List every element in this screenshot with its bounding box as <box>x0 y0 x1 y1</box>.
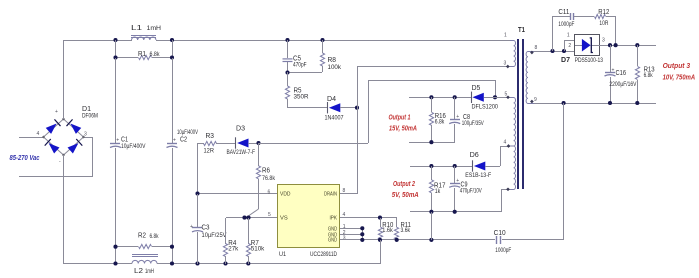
pin label: T1 pin 4 <box>504 140 507 146</box>
label: R1 value 6.8k <box>150 52 161 58</box>
label: C3 value 10uF/25V <box>202 233 227 239</box>
wire: U1 GND pins 1-3 stubs <box>340 228 363 240</box>
svg-text:9: 9 <box>534 97 537 103</box>
svg-text:Output 3: Output 3 <box>663 61 691 70</box>
transformer T1 secondary winding pins 8-9 <box>526 52 534 104</box>
svg-text:D7: D7 <box>561 57 570 64</box>
wire: aux supply line from VDD branch to R3 <box>198 143 204 145</box>
svg-text:L1: L1 <box>131 25 142 32</box>
diode D7 PDS5100-13 output rectifier in box <box>575 35 600 56</box>
capacitor C16 2200uF/16V output cap <box>605 45 616 103</box>
pin label: T1 pin 1 <box>504 32 507 38</box>
svg-text:76.8k: 76.8k <box>262 176 276 182</box>
label: R4 value 27k <box>228 247 239 253</box>
svg-text:DF06M: DF06M <box>82 114 98 120</box>
svg-text:L2: L2 <box>134 268 143 275</box>
label: Output 2 rating 5V 50mA <box>392 190 419 199</box>
pin label: bridge pin 4 <box>37 131 40 137</box>
svg-text:D4: D4 <box>327 96 336 103</box>
label: 85-270 Vac input <box>10 153 41 162</box>
svg-text:C2: C2 <box>180 137 187 144</box>
wire: VDD branch vertical and stub to U1 pin 6 <box>198 143 279 194</box>
junction: VDD node to C3 <box>195 191 199 195</box>
wire: secondary pin 8 to D7 anode <box>534 51 575 53</box>
label: C8 reference <box>463 114 470 121</box>
pin marker: T1 pin 5 <box>506 95 510 99</box>
label: C10 reference <box>494 230 506 237</box>
svg-text:DFLS1200: DFLS1200 <box>472 104 499 110</box>
svg-text:1N4007: 1N4007 <box>325 116 345 122</box>
wire: Output 2 return rail to aux winding bottom <box>410 189 510 212</box>
capacitor C10 1000pF Y-cap <box>497 236 501 244</box>
svg-text:2: 2 <box>568 43 571 49</box>
capacitor C2 10uF/400V bulk cap <box>167 58 178 264</box>
label: D6 reference <box>470 152 479 159</box>
diode D3 BAV21W-7-F <box>236 137 259 148</box>
label: R4 reference <box>228 240 236 247</box>
wire: Output 3 positive node rail <box>599 45 656 47</box>
capacitor C11 1000pF snubber <box>552 13 574 51</box>
svg-text:10µF/400V: 10µF/400V <box>121 144 146 150</box>
label: R1 reference <box>138 51 146 58</box>
svg-text:10R: 10R <box>599 21 609 27</box>
label: R11 value 3.6k <box>401 228 411 234</box>
junction dots on Output 2 return <box>429 210 456 214</box>
svg-text:+: + <box>190 224 193 230</box>
label: R12 value 10R <box>599 21 609 27</box>
svg-text:VDD: VDD <box>280 192 291 198</box>
label: U1 reference <box>279 251 286 258</box>
label: T1 reference <box>518 27 525 34</box>
resistor R8 100k snubber <box>288 40 325 73</box>
svg-text:3: 3 <box>504 60 507 66</box>
pin marker: T1 aux winding bottom pin <box>506 187 510 191</box>
pin label: U1 pin 2 GND <box>343 230 346 236</box>
junction: D4 to drain line <box>355 106 359 110</box>
pin label: D7 pin 1 <box>567 32 570 38</box>
pin label: bridge + pin <box>55 109 58 115</box>
wire: drain line from transformer pin 3 to U1 DRAIN <box>340 66 510 194</box>
svg-text:1mH: 1mH <box>147 26 162 32</box>
label: R10 value 1.6k <box>382 228 393 234</box>
label: L1 reference <box>131 25 142 32</box>
svg-text:+: + <box>612 68 615 74</box>
svg-text:U1: U1 <box>279 251 286 258</box>
diode D6 ES1B-13-F rectifier <box>473 146 511 172</box>
wire: secondary return rail pin 9 <box>534 103 656 105</box>
wire: B- bottom rail <box>64 263 380 265</box>
pin marker: T1 pin 3 <box>506 65 510 69</box>
pin label: U1 pin 6 <box>268 189 271 195</box>
label: R10 reference <box>382 222 393 229</box>
resistor R3 12R <box>204 141 237 145</box>
svg-text:100µF/35V: 100µF/35V <box>462 121 484 127</box>
resistor R6 76.8k VS upper divider <box>246 143 261 218</box>
label: R3 value 12R <box>204 149 215 155</box>
wire: B+ top rail from bridge to transformer pin 1 <box>64 40 510 42</box>
svg-text:1mH: 1mH <box>145 269 154 275</box>
label: R7 value 510k <box>251 247 266 253</box>
wire: AC line input lower (to bridge pin 3) <box>19 137 93 177</box>
svg-text:R1: R1 <box>138 51 146 58</box>
junction dots on Output 3 rail <box>608 43 639 47</box>
junction dots on B- rail <box>113 261 250 265</box>
junction dots on Output 1 rail <box>429 95 456 99</box>
pin label: T1 pin 3 <box>504 60 507 66</box>
pin marker: T1 pin 4 <box>507 144 511 148</box>
svg-text:R6: R6 <box>262 167 270 174</box>
resistor R7 510k VS divider <box>246 218 250 264</box>
label: U1 value UCC28911D <box>310 251 337 258</box>
label: C5 reference <box>293 55 301 62</box>
diode D4 1N4007 clamp <box>288 102 357 113</box>
wire: primary GND rail <box>340 239 564 241</box>
label: R16 reference <box>435 113 446 120</box>
transformer T1 aux winding 2 <box>510 146 516 190</box>
label: Output 1 rating 15V 50mA <box>389 124 417 133</box>
svg-text:6: 6 <box>268 189 271 195</box>
svg-text:D5: D5 <box>472 85 481 92</box>
label: D7 value PDS5100-13 <box>575 58 604 64</box>
label: D7 reference <box>561 57 570 64</box>
svg-text:T1: T1 <box>518 27 525 34</box>
svg-text:8: 8 <box>343 188 346 194</box>
label: R8 reference <box>328 57 337 64</box>
svg-text:R2: R2 <box>138 233 146 240</box>
capacitor C5 470pF snubber <box>283 40 293 72</box>
svg-text:1000pF: 1000pF <box>495 248 511 254</box>
svg-text:5: 5 <box>268 212 271 218</box>
resistor R13 6.8k preload <box>635 45 639 103</box>
resistor R1 6.8k parallel with L1 <box>113 40 174 60</box>
pin label: U1 pin 5 VS <box>268 212 271 218</box>
resistor R5 350R snubber <box>285 72 289 108</box>
svg-text:Output 2: Output 2 <box>393 179 416 188</box>
capacitor C1 10uF/400V bulk cap <box>110 58 121 264</box>
svg-text:R5: R5 <box>294 87 302 94</box>
label: R11 reference <box>401 222 412 229</box>
svg-text:D3: D3 <box>236 125 245 132</box>
resistor R16 6.8k preload <box>429 97 433 142</box>
junction: pin 5 node with D5 anode <box>493 95 497 99</box>
svg-text:ES1B-13-F: ES1B-13-F <box>465 173 491 179</box>
svg-text:6.8k: 6.8k <box>644 73 654 79</box>
label: C9 value 470uF/10V <box>460 189 482 195</box>
svg-text:1k: 1k <box>435 189 441 195</box>
wire: pin 5 stub to aux winding <box>495 97 510 99</box>
junction dots on B+ rail <box>113 38 324 42</box>
resistor R10 1.6k IPK program <box>378 218 382 240</box>
label: C2 value 10uF/400V <box>177 130 198 136</box>
svg-text:10V, 750mA: 10V, 750mA <box>663 72 696 81</box>
label: C2 reference <box>180 137 187 144</box>
junction: IPK to R10 <box>378 216 382 220</box>
label: R13 value 6.8k <box>644 73 654 79</box>
label: L2 reference <box>134 268 143 275</box>
svg-text:R12: R12 <box>598 9 609 16</box>
pin marker: T1 pin 9 <box>530 100 534 104</box>
label: C1 reference <box>121 137 128 144</box>
svg-text:IPK: IPK <box>330 215 338 221</box>
label: Output 2 red <box>393 179 416 188</box>
resistor R2 6.8k parallel with L2 <box>113 244 174 264</box>
svg-text:4: 4 <box>37 131 40 137</box>
svg-text:5V, 50mA: 5V, 50mA <box>392 190 419 199</box>
label: D3 value BAV21W-7-F <box>227 150 256 156</box>
junction dots on GND stub vertical <box>360 226 364 236</box>
svg-text:VS: VS <box>280 215 288 221</box>
junction dots on VS rail <box>242 216 250 220</box>
label: C16 value 2200uF/16V <box>609 82 636 88</box>
capacitor C8 100uF/35V output cap <box>449 97 460 142</box>
svg-text:D1: D1 <box>82 106 91 113</box>
svg-text:1: 1 <box>567 32 570 38</box>
label: R16 value 6.8k <box>435 120 445 126</box>
svg-text:Output 1: Output 1 <box>389 113 411 122</box>
pin label: T1 pin 5 <box>505 92 508 98</box>
junction dots on secondary return <box>562 101 640 105</box>
label: R7 reference <box>251 240 259 247</box>
svg-text:1000pF: 1000pF <box>558 22 574 28</box>
wire: Output 1 return rail <box>409 142 455 144</box>
label: D5 value DFLS1200 <box>472 104 499 110</box>
diode D5 DFLS1200 rectifier <box>472 92 496 103</box>
svg-text:2200µF/16V: 2200µF/16V <box>609 82 636 88</box>
resistor R11 3.6k IPK program <box>394 218 398 240</box>
capacitor C9 470uF/10V output cap <box>449 166 460 212</box>
label: R2 reference <box>138 233 146 240</box>
svg-text:R3: R3 <box>206 133 215 140</box>
pin label: T1 pin 8 <box>535 45 538 51</box>
label: D3 reference <box>236 125 245 132</box>
svg-text:6.8k: 6.8k <box>150 52 161 58</box>
svg-text:12R: 12R <box>204 149 215 155</box>
bridge rectifier D1 DF06M <box>42 117 85 156</box>
wire: Output 1 positive rail <box>409 97 471 99</box>
svg-text:+: + <box>116 137 119 143</box>
pin label: U1 pin 4 IPK <box>343 212 346 218</box>
svg-text:470pF: 470pF <box>293 63 307 69</box>
wire: bridge - output down to B- rail <box>63 155 65 264</box>
svg-text:5: 5 <box>505 92 508 98</box>
transformer T1 aux winding 1 pins 5-4 <box>510 98 516 147</box>
label: R5 value 350R <box>294 95 310 101</box>
svg-text:1.6k: 1.6k <box>382 228 393 234</box>
junction: R16 bottom on Output 1 return <box>429 140 433 144</box>
label: C3 reference <box>202 224 210 231</box>
svg-text:+: + <box>173 137 176 143</box>
resistor R4 27k VS lower divider <box>223 218 227 264</box>
label: C5 value 470pF <box>293 63 307 69</box>
pin label: bridge - pin <box>59 159 61 165</box>
svg-text:C8: C8 <box>463 114 470 121</box>
label: C9 reference <box>461 181 468 188</box>
svg-text:3: 3 <box>84 132 87 138</box>
svg-text:C1: C1 <box>121 137 128 144</box>
svg-text:350R: 350R <box>294 95 310 101</box>
pin label: T1 pin 9 <box>534 97 537 103</box>
svg-text:+: + <box>456 178 459 184</box>
svg-text:C3: C3 <box>202 224 210 231</box>
label: C10 value 1000pF <box>495 248 511 254</box>
svg-text:27k: 27k <box>228 247 239 253</box>
pin label: U1 pin 1 GND <box>343 224 346 230</box>
transformer T1 primary winding pins 1-3 <box>510 41 516 67</box>
junction dots on Output 2 rail <box>429 164 456 168</box>
label: R17 reference <box>434 183 446 190</box>
label: R6 reference <box>262 167 270 174</box>
junction: aux node D3/R6 <box>256 141 260 145</box>
label: R6 value 76.8k <box>262 176 276 182</box>
svg-text:C9: C9 <box>461 181 468 188</box>
inductor L1 1mH in B+ rail <box>131 36 156 41</box>
wire: secondary return down to Y-cap rail <box>563 103 565 240</box>
svg-text:470µF/10V: 470µF/10V <box>460 189 482 195</box>
label: C16 reference <box>616 70 627 77</box>
svg-text:GND: GND <box>328 237 337 243</box>
svg-text:3.6k: 3.6k <box>401 228 411 234</box>
wire: Output 2 return to GND rail link <box>431 212 433 240</box>
label: R12 reference <box>598 9 609 16</box>
svg-text:1: 1 <box>504 32 507 38</box>
label: R2 value 6.8k <box>150 234 160 240</box>
junction: snubber node C5/R8/R5 <box>285 70 289 74</box>
wire: GND rail to B- rail link <box>380 240 382 264</box>
svg-text:6.8k: 6.8k <box>150 234 160 240</box>
pin label: bridge pin 3 <box>84 132 87 138</box>
wire: IPK pin to R10/R11 <box>340 217 397 219</box>
svg-text:+: + <box>456 114 459 120</box>
label: D4 reference <box>327 96 336 103</box>
resistor R17 1k preload <box>429 166 433 212</box>
label: D1 value DF06M <box>82 114 98 120</box>
label: C11 reference <box>558 9 569 16</box>
svg-text:+: + <box>55 109 58 115</box>
label: R13 reference <box>644 66 655 73</box>
junction dots on secondary anode node <box>550 49 566 53</box>
resistor R12 10R snubber <box>574 14 616 45</box>
pin label: D7 pin 3 <box>602 38 605 44</box>
wire: D7 pin 1 loop <box>564 40 575 51</box>
svg-text:PDS5100-13: PDS5100-13 <box>575 58 604 64</box>
svg-text:8: 8 <box>535 45 538 51</box>
svg-text:DRAIN: DRAIN <box>324 192 337 198</box>
svg-text:100k: 100k <box>328 65 343 71</box>
svg-text:D6: D6 <box>470 152 479 159</box>
pin marker: T1 pin 8 <box>530 51 534 55</box>
label: C1 value 10uF/400V <box>121 144 146 150</box>
label: R17 value 1k <box>435 189 441 195</box>
label: R8 value 100k <box>328 65 343 71</box>
svg-text:15V, 50mA: 15V, 50mA <box>389 124 417 133</box>
svg-text:4: 4 <box>504 140 507 146</box>
label: L1 value 1mH <box>147 26 162 32</box>
label: R3 reference <box>206 133 215 140</box>
svg-text:3: 3 <box>602 38 605 44</box>
svg-text:C16: C16 <box>616 70 627 77</box>
inductor L2 1mH in B- rail <box>132 255 158 264</box>
pin label: D7 pin 2 <box>568 43 571 49</box>
label: Output 3 rating 10V 750mA <box>663 72 696 81</box>
label: Output 1 red <box>389 113 411 122</box>
svg-text:6.8k: 6.8k <box>435 120 445 126</box>
svg-text:R8: R8 <box>328 57 337 64</box>
label: Output 3 red <box>663 61 691 70</box>
label: D5 reference <box>472 85 481 92</box>
wire: VS rail to U1 pin 5 <box>226 217 278 219</box>
svg-text:510k: 510k <box>251 247 266 253</box>
wire: bridge + output up to B+ rail <box>63 40 65 119</box>
svg-text:BAV21W-7-F: BAV21W-7-F <box>227 150 256 156</box>
pin label: U1 pin 8 DRAIN <box>343 188 346 194</box>
label: L2 value 1mH <box>145 269 154 275</box>
svg-text:10µF/400V: 10µF/400V <box>177 130 198 136</box>
label: C11 value 1000pF <box>558 22 574 28</box>
svg-text:C10: C10 <box>494 230 506 237</box>
wire: AC line input upper (to bridge pin 4) <box>19 137 44 139</box>
wire: Output 2 positive rail <box>410 166 473 168</box>
svg-text:C5: C5 <box>293 55 301 62</box>
capacitor C3 10uF/25V VDD cap <box>190 194 203 264</box>
svg-text:85-270 Vac: 85-270 Vac <box>10 153 41 162</box>
svg-text:UCC28911D: UCC28911D <box>310 251 337 258</box>
svg-text:C11: C11 <box>558 9 569 16</box>
op-amp U1 UCC28911D flyback controller IC <box>278 185 340 248</box>
label: R5 reference <box>294 87 302 94</box>
svg-text:10µF/25V: 10µF/25V <box>202 233 227 239</box>
label: D1 reference <box>82 106 91 113</box>
wire: aux line across drain line to transformer pin 5 <box>258 80 496 144</box>
svg-text:3: 3 <box>343 236 346 242</box>
pin label: U1 pin 3 GND <box>343 236 346 242</box>
junction dots on GND rail <box>360 238 433 242</box>
transformer T1 core <box>518 39 523 189</box>
label: D6 value ES1B-13-F <box>465 173 491 179</box>
label: D4 value 1N4007 <box>325 116 345 122</box>
label: C8 value 100uF/35V <box>462 121 484 127</box>
